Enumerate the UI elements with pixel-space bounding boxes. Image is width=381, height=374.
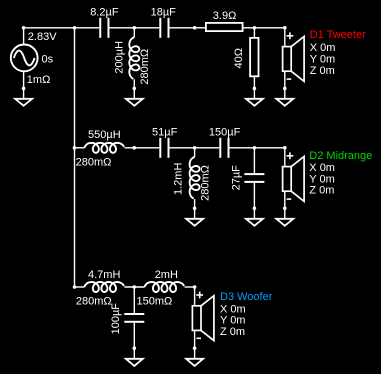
svg-text:150mΩ: 150mΩ bbox=[137, 296, 173, 308]
wire 200µH bottom stub bbox=[133, 79, 135, 99]
wire bottom bus: 2mH to D3 bbox=[185, 286, 195, 288]
node dot 200µH bottom bbox=[133, 87, 137, 91]
wire top bus: 8.2uF to 18uF bbox=[110, 27, 160, 29]
svg-text:Z 0m: Z 0m bbox=[310, 65, 335, 77]
wire 40Ω top stub bbox=[253, 28, 255, 38]
node dot D3 top bbox=[193, 285, 197, 289]
inductor 550µH bbox=[84, 143, 124, 153]
node dot 100µF bottom bbox=[133, 346, 137, 350]
wire top bus: source to 8.2uF bbox=[24, 27, 100, 29]
node dot D1 top bbox=[283, 26, 287, 30]
ground below 200µH bbox=[126, 99, 143, 106]
node dot D2 bottom bbox=[283, 207, 287, 211]
speaker D2 midrange bbox=[283, 157, 305, 202]
node dot D2 top bbox=[283, 146, 287, 150]
node dot feed mid bbox=[73, 146, 77, 150]
plus sign D2 bbox=[287, 152, 294, 159]
wire D3 bottom stub bbox=[194, 330, 196, 359]
wire mid bus: 550µH to 51µF bbox=[124, 147, 159, 149]
wire 200µH top stub bbox=[133, 28, 135, 38]
svg-text:150µF: 150µF bbox=[209, 127, 241, 139]
capacitor 100µF bbox=[124, 313, 144, 323]
wire mid bus: 51µF to 150µF bbox=[170, 147, 220, 149]
wire source top bbox=[23, 28, 25, 45]
wire bottom bus: 4.7mH to 2mH bbox=[124, 286, 144, 288]
node dot source bottom bbox=[22, 87, 26, 91]
node dot 40Ω top bbox=[253, 26, 257, 30]
wire D2 bottom stub bbox=[284, 191, 286, 219]
svg-text:Z 0m: Z 0m bbox=[309, 185, 334, 197]
resistor 3.9Ω bbox=[206, 23, 243, 31]
svg-text:3.9Ω: 3.9Ω bbox=[213, 10, 237, 22]
wire top bus: 18uF to 3.9ohm bbox=[170, 27, 206, 29]
resistor 40Ω bbox=[250, 38, 258, 76]
wire 27µF bottom stub bbox=[253, 183, 255, 219]
svg-text:D1 Tweeter: D1 Tweeter bbox=[310, 29, 366, 41]
wire 40Ω bottom stub bbox=[253, 76, 255, 99]
node dot 27µF bottom bbox=[253, 207, 257, 211]
node dot 18µF-3.9Ω bbox=[193, 26, 197, 30]
capacitor 18µF bbox=[159, 18, 169, 38]
capacitor 8.2µF bbox=[99, 18, 109, 38]
ground below 27µF bbox=[246, 219, 263, 226]
svg-text:8.2µF: 8.2µF bbox=[90, 6, 119, 18]
minus sign D1 bbox=[287, 78, 292, 80]
svg-text:280mΩ: 280mΩ bbox=[139, 49, 151, 85]
wire D2 top stub bbox=[284, 148, 286, 167]
wire 27µF top stub bbox=[253, 148, 255, 173]
ground below D3 bbox=[186, 359, 203, 366]
svg-text:X 0m: X 0m bbox=[310, 42, 336, 54]
wire mid bus: feed to 550µH bbox=[75, 147, 85, 149]
plus sign D1 bbox=[287, 32, 294, 39]
minus sign D2 bbox=[287, 198, 292, 200]
wire source bottom bbox=[23, 71, 25, 99]
node dot 100µF tap bbox=[133, 285, 137, 289]
svg-text:280mΩ: 280mΩ bbox=[76, 296, 112, 308]
inductor 4.7mH bbox=[84, 282, 124, 292]
plus sign D3 bbox=[196, 292, 203, 299]
svg-text:550µH: 550µH bbox=[88, 129, 121, 141]
svg-text:1.2mH: 1.2mH bbox=[172, 163, 184, 195]
svg-text:X 0m: X 0m bbox=[220, 303, 246, 315]
svg-text:51µF: 51µF bbox=[152, 127, 178, 139]
svg-text:Y 0m: Y 0m bbox=[220, 315, 245, 327]
wire mid bus: 150µF to D2 bbox=[230, 147, 285, 149]
capacitor 150µF bbox=[219, 138, 229, 158]
svg-text:1mΩ: 1mΩ bbox=[27, 74, 51, 86]
inductor 2mH bbox=[145, 282, 185, 292]
node dot D1 bottom bbox=[283, 87, 287, 91]
svg-text:100µF: 100µF bbox=[110, 303, 122, 335]
wire D3 top stub bbox=[194, 287, 196, 306]
inductor 1.2mH bbox=[190, 157, 200, 199]
svg-text:4.7mH: 4.7mH bbox=[88, 269, 120, 281]
node dot 1.2mH tap bbox=[193, 146, 197, 150]
wire 100µF bottom stub bbox=[133, 323, 135, 359]
svg-text:D3 Woofer: D3 Woofer bbox=[220, 291, 273, 303]
wire 1.2mH top stub bbox=[194, 148, 196, 157]
node dot 40Ω bottom bbox=[253, 87, 257, 91]
inductor 200µH bbox=[129, 37, 139, 79]
ground below 40Ω bbox=[246, 99, 263, 106]
ground below D2 bbox=[276, 219, 293, 226]
ground below source bbox=[15, 99, 32, 106]
ground below D1 bbox=[276, 99, 293, 106]
node dot 1.2mH bottom bbox=[193, 207, 197, 211]
wire D1 bottom stub bbox=[284, 71, 286, 99]
capacitor 51µF bbox=[159, 138, 169, 158]
svg-text:Y 0m: Y 0m bbox=[309, 173, 334, 185]
svg-text:18µF: 18µF bbox=[151, 6, 177, 18]
ground below 1.2mH bbox=[186, 219, 203, 226]
svg-text:2mH: 2mH bbox=[155, 269, 178, 281]
node dot source top bbox=[22, 26, 26, 30]
node dot 550µH-51µF bbox=[133, 146, 137, 150]
svg-text:2.83V: 2.83V bbox=[28, 31, 57, 43]
svg-text:0s: 0s bbox=[42, 54, 54, 66]
node dot feed top bbox=[73, 26, 77, 30]
svg-text:D2 Midrange: D2 Midrange bbox=[309, 150, 372, 162]
wire 1.2mH bottom stub bbox=[194, 199, 196, 219]
speaker D1 tweeter bbox=[283, 37, 305, 82]
svg-text:Y 0m: Y 0m bbox=[310, 53, 335, 65]
svg-text:200µH: 200µH bbox=[114, 41, 126, 74]
voltage source V1 sine symbol bbox=[11, 45, 38, 72]
svg-text:X 0m: X 0m bbox=[309, 162, 335, 174]
svg-text:280mΩ: 280mΩ bbox=[76, 157, 112, 169]
wire bottom bus: feed to 4.7mH bbox=[75, 286, 85, 288]
node dot D3 bottom bbox=[193, 346, 197, 350]
svg-text:27µF: 27µF bbox=[230, 165, 242, 191]
wire vertical feed bbox=[74, 28, 76, 287]
capacitor 27µF bbox=[244, 173, 264, 183]
wire 100µF top stub bbox=[133, 287, 135, 313]
node dot feed bottom corner bbox=[73, 285, 77, 289]
node dot 27µF tap bbox=[253, 146, 257, 150]
node dot 200µH top bbox=[133, 26, 137, 30]
wire D1 top stub bbox=[284, 28, 286, 47]
minus sign D3 bbox=[196, 337, 201, 339]
svg-text:40Ω: 40Ω bbox=[233, 48, 245, 68]
svg-text:Z 0m: Z 0m bbox=[220, 326, 245, 338]
speaker D3 woofer bbox=[192, 296, 214, 341]
wire top bus: 3.9ohm to D1 bbox=[243, 27, 285, 29]
ground below 100µF bbox=[126, 359, 143, 366]
svg-text:280mΩ: 280mΩ bbox=[200, 165, 212, 201]
